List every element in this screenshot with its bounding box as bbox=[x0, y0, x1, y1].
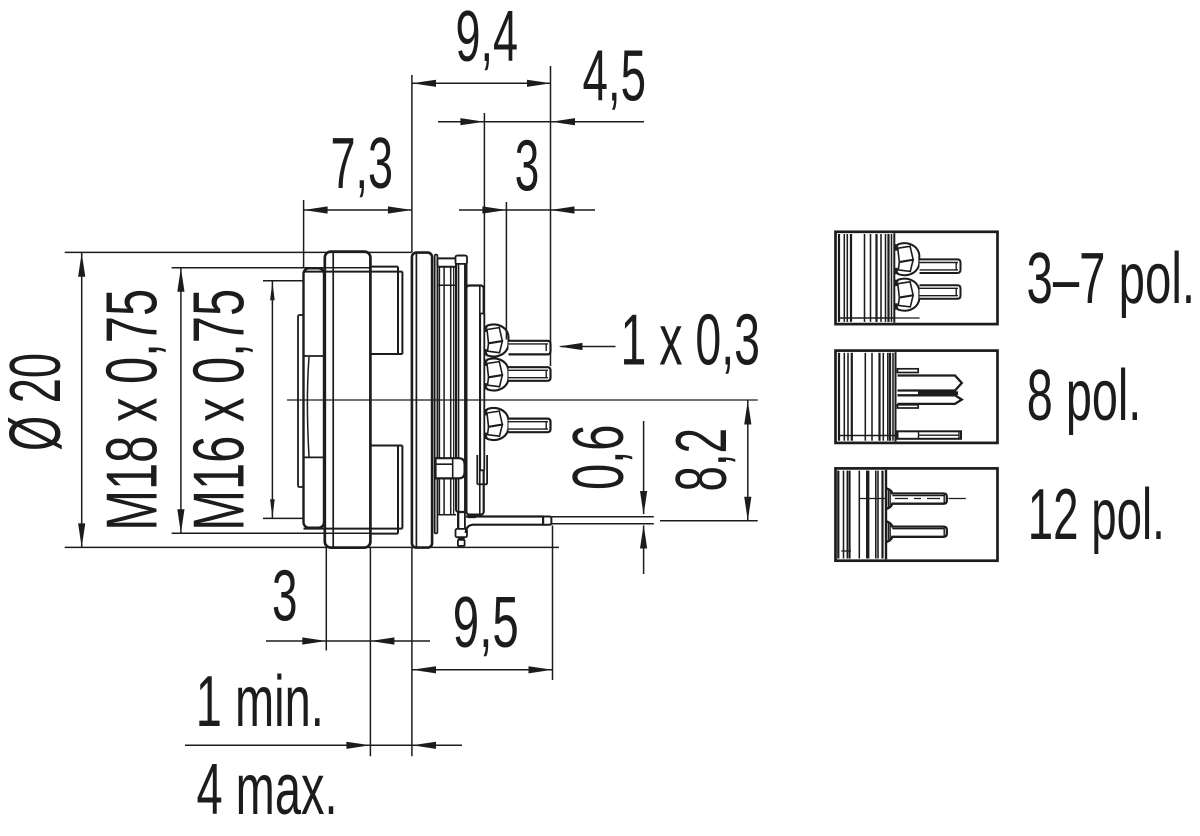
box3 knurl hatch lines bbox=[838, 470, 886, 559]
contact crown 1 bbox=[484, 324, 509, 356]
hex face line top bbox=[304, 271, 403, 273]
pin 2 bbox=[509, 367, 551, 381]
box2 blade contact lower bbox=[898, 395, 962, 408]
dimension line M18 bbox=[177, 268, 184, 534]
extension line tab bottom 0,6 bbox=[551, 523, 653, 525]
contact crown 3 bbox=[484, 408, 509, 440]
hex nut Dia 20 bbox=[325, 252, 371, 548]
extension line x=552.5 bbox=[552, 526, 554, 681]
svg-text:0,6: 0,6 bbox=[559, 425, 639, 491]
plate B bottom cap bbox=[456, 529, 468, 537]
box1 bottom line bbox=[839, 317, 920, 319]
dimension line 3 top bbox=[459, 206, 595, 213]
variant box 8 pol outline bbox=[836, 351, 998, 443]
box1 crown 1 bbox=[894, 243, 919, 275]
rear washer stack lines bbox=[437, 267, 456, 515]
extension line M18 top bbox=[172, 267, 371, 269]
box2 bottom line bbox=[839, 435, 896, 437]
extension line x=303.6 bbox=[303, 200, 305, 268]
dimension text 8,2 rotated bbox=[662, 428, 742, 492]
dimension line Dia 20 bbox=[78, 253, 85, 548]
pin 3 bbox=[509, 419, 551, 433]
svg-text:1 x 0,3: 1 x 0,3 bbox=[621, 300, 761, 380]
svg-text:8,2: 8,2 bbox=[662, 428, 742, 492]
contact carrier cylinder bbox=[466, 286, 483, 515]
rear plate B (solder plate) bbox=[456, 256, 466, 536]
svg-text:4 max.: 4 max. bbox=[197, 750, 338, 830]
pin 1 bbox=[509, 341, 551, 355]
plate B dark band bbox=[458, 537, 465, 540]
mounting bracket hook bbox=[436, 458, 465, 478]
svg-text:M18 x 0,75: M18 x 0,75 bbox=[93, 289, 173, 531]
svg-text:1 min.: 1 min. bbox=[196, 662, 324, 742]
svg-text:12 pol.: 12 pol. bbox=[1028, 475, 1165, 555]
svg-text:3: 3 bbox=[272, 556, 298, 636]
extension line x=370.4 bbox=[369, 548, 371, 756]
extension line tab top 0,6 bbox=[551, 516, 653, 518]
extension line Dia20 top bbox=[65, 251, 412, 253]
flange disc bbox=[412, 253, 432, 548]
centerline of connector axis bbox=[287, 399, 758, 401]
svg-text:9,4: 9,4 bbox=[456, 0, 519, 77]
label 8 pol. bbox=[1027, 356, 1142, 436]
box1 pin 2 bbox=[920, 285, 961, 299]
extension line x=550.5 bbox=[550, 66, 552, 366]
extension line M16 top bbox=[263, 280, 304, 282]
svg-text:M16 x 0,75: M16 x 0,75 bbox=[180, 289, 260, 531]
dimension text 1 min. bbox=[196, 662, 324, 742]
svg-text:9,5: 9,5 bbox=[453, 583, 519, 663]
dimension line M16 bbox=[270, 281, 275, 518]
extension line x=484.4 bbox=[483, 113, 485, 324]
box2 blade contact upper bbox=[898, 369, 962, 391]
dimension text 3 top bbox=[515, 127, 540, 207]
dimension line 9,4 bbox=[412, 80, 551, 87]
svg-text:7,3: 7,3 bbox=[331, 124, 394, 204]
box2 solder tab bbox=[898, 431, 962, 439]
dimension line 1 min 4 max bbox=[185, 742, 462, 749]
box3 round pin 1 bbox=[886, 488, 947, 509]
svg-text:8 pol.: 8 pol. bbox=[1027, 356, 1142, 436]
dimension text 7,3 bbox=[331, 124, 394, 204]
plate B foot bbox=[458, 540, 465, 546]
dimension line 4,5 bbox=[438, 118, 644, 125]
dimension text 9,4 bbox=[456, 0, 519, 77]
extension line M18 bottom bbox=[172, 532, 371, 534]
dimension line 7,3 bbox=[304, 206, 412, 213]
box1 crown 2 bbox=[894, 279, 919, 311]
box3 bottom tick bbox=[841, 550, 851, 552]
contact crown 2 bbox=[484, 358, 509, 390]
label 12 pol. bbox=[1028, 475, 1165, 555]
box1 pin 1 bbox=[920, 259, 961, 273]
svg-text:4,5: 4,5 bbox=[583, 36, 647, 116]
dimension text 9,5 bbox=[453, 583, 519, 663]
extension line x=506.4 bbox=[505, 202, 507, 340]
box3 round pin 2 bbox=[886, 521, 947, 542]
variant box 12 pol outline bbox=[836, 468, 998, 560]
svg-text:3: 3 bbox=[515, 127, 540, 207]
leader line 1 x 0,3 bbox=[559, 343, 616, 350]
extension line 8,2 bottom bbox=[660, 520, 758, 522]
dimension text M16 x 0,75 rotated bbox=[180, 289, 260, 531]
contact block plate C bbox=[480, 314, 484, 471]
dimension line 8,2 bbox=[744, 401, 751, 521]
extension line x=326.3 bbox=[325, 548, 327, 651]
dimension text 4 max. bbox=[197, 750, 338, 830]
label 3-7 pol. bbox=[1027, 239, 1196, 319]
dimension text 3 bottom bbox=[272, 556, 298, 636]
extension line Dia20 bottom bbox=[65, 546, 559, 548]
front ring M16 thread section bbox=[304, 268, 325, 527]
svg-text:Ø 20: Ø 20 bbox=[0, 353, 76, 451]
dimension text 4,5 bbox=[583, 36, 647, 116]
front mating cylinder tip bbox=[298, 315, 304, 487]
leader text 1 x 0,3 bbox=[621, 300, 761, 380]
plate B top cap bbox=[456, 256, 468, 264]
dimension text Dia 20 rotated bbox=[0, 353, 76, 451]
solder tab bbox=[466, 515, 552, 533]
dimension text M18 x 0,75 rotated bbox=[93, 289, 173, 531]
dimension line 0,6 bbox=[640, 421, 647, 574]
svg-text:3–7 pol.: 3–7 pol. bbox=[1027, 239, 1196, 319]
box2 knurl hatch lines bbox=[839, 352, 896, 441]
extension line M16 bottom bbox=[263, 517, 304, 519]
extension line x=412 lower bbox=[411, 548, 413, 757]
lower block step bbox=[477, 455, 487, 484]
M18 thread barrel outline bbox=[370, 267, 402, 534]
dimension text 0,6 rotated bbox=[559, 425, 639, 491]
dimension line 3 bottom bbox=[266, 637, 430, 644]
box1 knurl hatch lines bbox=[839, 233, 894, 322]
rear top cap block bbox=[437, 258, 456, 266]
dimension line 9,5 bbox=[412, 666, 553, 673]
variant box 3-7 pol outline bbox=[836, 232, 998, 324]
box2 dark gap bar bbox=[918, 391, 958, 395]
hex face line bottom bbox=[304, 528, 403, 530]
extension line x=412 upper bbox=[411, 75, 413, 252]
box3 pin1 centerline bbox=[859, 498, 966, 500]
rear plate A bbox=[435, 255, 438, 534]
